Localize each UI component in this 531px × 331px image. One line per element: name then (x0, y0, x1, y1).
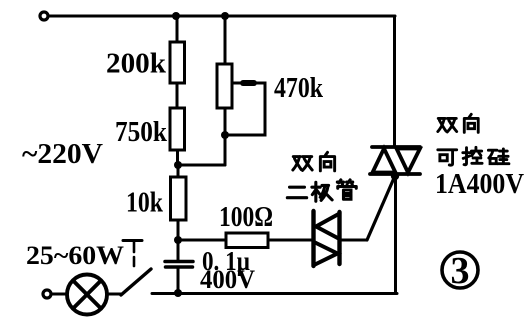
capacitor 0.1u lead top (177, 240, 180, 260)
switch linkage dashed (133, 241, 136, 266)
wire diac to gate bend (341, 239, 367, 242)
label guan (diac) (337, 180, 356, 199)
svg-text:1A400V: 1A400V (435, 168, 524, 200)
wire between 200k and 750k (176, 83, 179, 108)
label gui (triac) (488, 149, 509, 164)
wire 10k bottom lead (177, 220, 180, 240)
node junction RC (174, 236, 182, 244)
resistor 200k (170, 42, 185, 83)
node junction triac MT1 (391, 172, 399, 180)
svg-text:~220V: ~220V (22, 138, 103, 170)
svg-text:200k: 200k (106, 48, 167, 80)
resistor 100ohm (226, 233, 268, 248)
label kong (triac) (463, 147, 482, 164)
svg-text:750k: 750k (115, 117, 167, 148)
capacitor 0.1u 400V (165, 260, 193, 264)
triac left triangle (373, 149, 396, 173)
label xiang (diac) (320, 152, 334, 170)
wire bottom rail (152, 292, 397, 295)
node junction top of 200k chain (172, 12, 180, 20)
resistor 750k (170, 108, 185, 150)
wire terminal to lamp (51, 293, 66, 296)
svg-text:3: 3 (451, 250, 470, 292)
terminal top-left (40, 12, 48, 20)
resistor 10k (171, 177, 187, 220)
svg-text:470k: 470k (274, 73, 323, 104)
terminal bottom-left (43, 290, 51, 298)
node junction top of 470k (221, 12, 229, 20)
diac upper triangle (316, 214, 340, 240)
wire 470k bottom lead (224, 108, 227, 165)
wire lamp to switch (107, 293, 122, 296)
potentiometer 470k body (217, 64, 232, 108)
wire node to 100ohm (178, 239, 226, 242)
label xiang (triac) (464, 114, 478, 132)
wire 750k bottom lead (176, 150, 179, 165)
node junction pot wiper return (221, 131, 229, 139)
node junction cap to bottom rail (174, 289, 182, 297)
lamp 25-60W (67, 275, 107, 315)
wire pot bottom to divider node (178, 164, 225, 167)
wire 10k top lead (177, 165, 180, 177)
svg-text:100Ω: 100Ω (219, 202, 273, 233)
wire 100ohm to diac (268, 239, 312, 242)
triac bottom bar MT1 (370, 172, 420, 176)
wire 200k top lead (176, 16, 179, 42)
wire pot wiper loop (229, 83, 265, 135)
label ji (diac) (312, 182, 332, 201)
svg-text:25~60W: 25~60W (26, 241, 124, 270)
switch linkage T-bar (123, 239, 142, 242)
wire 470k top lead (224, 16, 227, 64)
wire top rail (49, 15, 396, 18)
figure number 3 circled (442, 250, 478, 292)
label shuang (diac) (293, 157, 312, 171)
wire gate diagonal (367, 178, 394, 240)
capacitor lead bottom (177, 267, 180, 293)
label shuang (triac) (438, 118, 457, 132)
diac lower triangle (314, 242, 338, 265)
svg-text:10k: 10k (126, 188, 163, 219)
triac right triangle (397, 149, 421, 173)
triac top bar MT2 (372, 145, 420, 149)
svg-text:400V: 400V (200, 265, 255, 294)
wiper contact blob (243, 80, 254, 86)
node junction mid divider (174, 161, 182, 169)
wire triac to bottom rail (394, 176, 397, 293)
label er (diac) (287, 187, 306, 198)
label ke (triac) (438, 150, 457, 165)
wire right drop to triac (393, 16, 396, 147)
diac right bar (337, 212, 341, 264)
diac left bar (311, 211, 315, 266)
switch blade (121, 269, 151, 295)
